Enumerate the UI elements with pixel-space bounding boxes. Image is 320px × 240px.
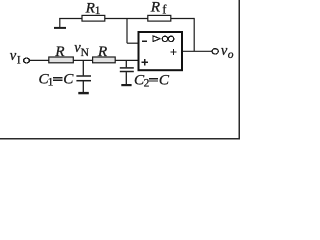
svg-text:R: R — [54, 43, 65, 60]
svg-text:R: R — [150, 0, 161, 16]
svg-text:1: 1 — [48, 76, 54, 88]
svg-text:2: 2 — [144, 78, 150, 90]
svg-text:I: I — [17, 54, 21, 66]
svg-text:N: N — [81, 47, 90, 59]
svg-text:R: R — [97, 43, 108, 60]
svg-text:C: C — [159, 72, 170, 89]
svg-text:v: v — [10, 48, 17, 64]
svg-text:C: C — [63, 71, 74, 88]
svg-text:o: o — [228, 49, 234, 61]
svg-text:f: f — [162, 3, 167, 17]
svg-text:1: 1 — [95, 5, 101, 17]
